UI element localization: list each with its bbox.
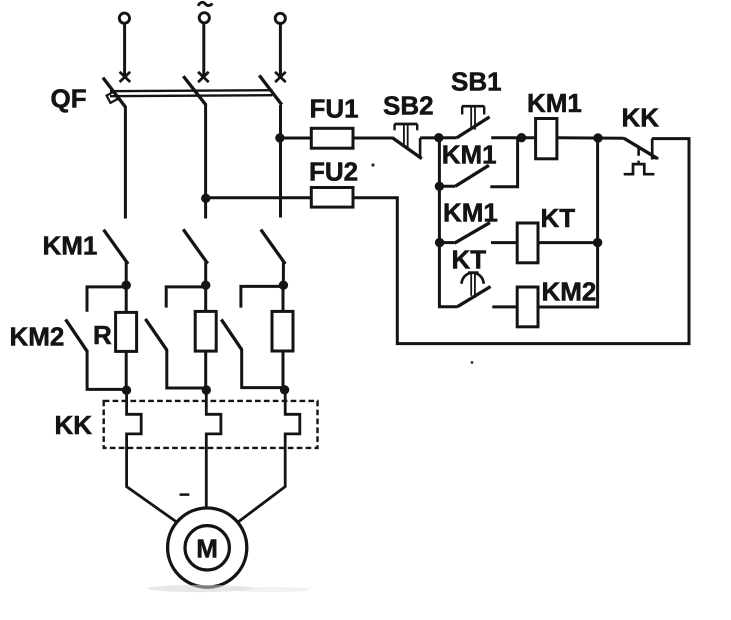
svg-text:KM1: KM1 — [442, 139, 497, 169]
svg-text:KM1: KM1 — [443, 198, 498, 228]
svg-text:R: R — [93, 320, 112, 350]
svg-text:KM1: KM1 — [527, 88, 582, 118]
svg-text:KM2: KM2 — [10, 322, 65, 352]
svg-text:KT: KT — [541, 203, 576, 233]
svg-text:KK: KK — [622, 103, 660, 133]
svg-text:KT: KT — [452, 245, 487, 275]
svg-text:KK: KK — [55, 410, 93, 440]
svg-text:KM1: KM1 — [43, 231, 98, 261]
svg-text:FU1: FU1 — [310, 94, 359, 124]
svg-text:SB2: SB2 — [383, 91, 434, 121]
svg-text:KM2: KM2 — [542, 277, 597, 307]
svg-text:M: M — [196, 533, 218, 563]
svg-text:QF: QF — [51, 84, 87, 114]
svg-text:SB1: SB1 — [451, 67, 502, 97]
svg-text:FU2: FU2 — [309, 157, 358, 187]
